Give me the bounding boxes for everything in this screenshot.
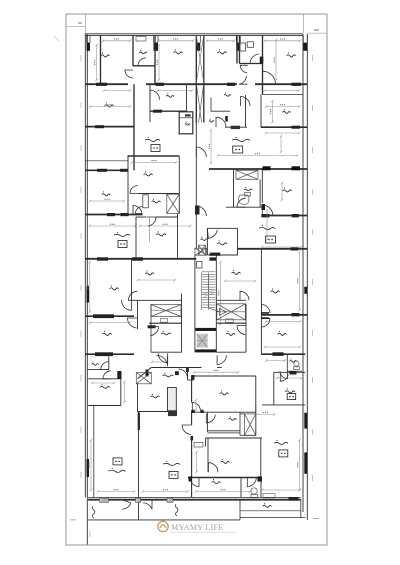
terrace line R2 <box>240 510 301 512</box>
column kitchenR2 <box>290 371 297 375</box>
label bedroomL3b <box>145 270 154 275</box>
label bathRmid <box>244 187 252 191</box>
door bathRmid <box>237 198 246 207</box>
bathL tub <box>143 195 149 208</box>
border frame <box>66 14 327 545</box>
wall x133 <box>132 35 134 66</box>
label bedroom R4 <box>221 459 230 464</box>
column y248 <box>291 247 299 250</box>
bathA sink <box>136 37 146 42</box>
column y258-1 <box>97 257 108 260</box>
bedroomL4 right wall <box>137 300 139 329</box>
door bedroomR2 <box>261 305 270 314</box>
dim y414 R <box>255 413 275 416</box>
bottom long wall <box>88 499 301 501</box>
door shower <box>250 54 260 64</box>
right wall bottom seg <box>306 512 308 520</box>
tick bottom right <box>313 518 319 520</box>
column y315R <box>292 313 300 316</box>
dim v x265 low <box>298 439 301 492</box>
dim v x276 <box>274 39 277 82</box>
blob x262 y204 <box>262 204 266 210</box>
edge tick left 9 <box>80 472 82 478</box>
bedroomR2 bottom wall <box>261 314 307 316</box>
edge tick left 1 <box>80 102 82 108</box>
closet L top wall <box>138 299 182 301</box>
bedroomR3 bottom wall <box>261 353 305 355</box>
bedroomML right wall <box>178 156 180 214</box>
hatch small bath C <box>198 245 205 255</box>
label bedroom A2 <box>174 49 183 54</box>
hall wall x245 <box>245 95 247 127</box>
bathR small bottom <box>287 370 302 372</box>
dim v x158 <box>157 44 160 82</box>
hall wall v211 <box>210 98 212 112</box>
column top-4 <box>236 43 240 51</box>
roomA bottom wall <box>88 405 121 407</box>
top outer wall <box>85 34 302 36</box>
dim y154 R <box>217 154 299 157</box>
tick bottom left <box>70 519 76 521</box>
bathR3 bottom wall <box>207 431 240 433</box>
dim y372 <box>193 370 240 373</box>
edge tick left 3 <box>80 187 82 193</box>
dim bottom recepR <box>195 490 252 493</box>
bathL lower bottom <box>151 351 182 353</box>
column top-2 jambs <box>154 36 159 43</box>
hatch bathL <box>167 194 180 213</box>
bedroomRmid right wall <box>255 376 257 412</box>
column y84-1 <box>96 83 107 86</box>
column y84-3 <box>227 83 235 86</box>
dim y90b <box>157 89 194 92</box>
small shaft box <box>179 112 193 134</box>
label hall small <box>209 119 214 123</box>
wall x262.5 <box>262 35 264 95</box>
door bathL5 <box>101 362 109 370</box>
wall y170L <box>85 169 128 171</box>
block x262 y57 <box>260 57 264 64</box>
watermark <box>158 521 236 532</box>
bedroomRmid top wall <box>192 375 256 377</box>
edge tick right 6 <box>312 330 314 336</box>
dim roomA v <box>123 381 126 404</box>
dim topA1 <box>102 39 132 42</box>
diningR right wall <box>245 304 247 352</box>
door leaf R2b <box>261 317 269 319</box>
column y214-2 <box>121 213 129 216</box>
dim v x196 low <box>195 451 198 474</box>
door bedroomA1 <box>125 70 133 78</box>
door bedroomL3b <box>128 291 137 300</box>
door hall h112 <box>216 117 226 127</box>
dim y90c <box>264 89 301 92</box>
bathRmid right wall <box>259 180 261 208</box>
column top-3 jambs <box>196 36 200 43</box>
roomB left wall <box>137 384 139 412</box>
column right wall lower1 <box>304 413 307 429</box>
column roomA <box>117 371 121 379</box>
label kitchenR2 <box>285 388 295 393</box>
wall y323 R <box>216 322 246 324</box>
wall y323 L <box>149 322 182 324</box>
label bedroomCR <box>232 270 241 275</box>
stair small box <box>197 262 203 269</box>
column central low <box>138 413 140 431</box>
dim bedroomRa v <box>281 182 284 202</box>
dim y453 R <box>261 489 302 492</box>
hatch bathRmid <box>236 170 258 179</box>
dim stair v <box>219 261 222 326</box>
label kitchenR <box>217 240 227 245</box>
dim receptionL mid2 <box>89 224 137 227</box>
bathL5 right wall <box>108 357 110 370</box>
roomB stack <box>168 388 177 412</box>
receptionL left inner wall <box>93 406 95 498</box>
bedroomL4 bottom wall <box>85 353 134 355</box>
edge tick right 3 <box>312 189 314 195</box>
terrace bottom line <box>88 519 240 521</box>
dim y90a <box>103 89 132 92</box>
dim bottom recepL <box>97 490 136 493</box>
terrace label R <box>262 503 271 507</box>
dim bedroomL3 v <box>88 261 91 314</box>
edge tick right 8 <box>312 429 314 435</box>
bathR5 left wall <box>240 478 242 498</box>
door center b <box>196 206 206 216</box>
column y354 <box>95 352 113 356</box>
door hall x245 <box>241 97 251 107</box>
hall wall y127 seg <box>225 126 247 128</box>
central wall lower a <box>191 376 193 403</box>
bathR5 wc <box>251 488 258 498</box>
door leaf R2a <box>261 312 269 314</box>
bedroomR4 right wall <box>260 438 262 478</box>
dim y360 R <box>265 359 287 362</box>
bathL lower right wall <box>181 294 183 353</box>
door bedroomML <box>130 186 138 194</box>
central wall lower b <box>191 436 193 497</box>
duct R bottom wall <box>240 434 256 436</box>
central wall lower a2 <box>191 411 193 426</box>
wall x155 <box>154 35 156 85</box>
column y214-1 <box>107 213 115 216</box>
kitchenL left wall <box>135 217 137 259</box>
numbox receptionL <box>118 241 127 248</box>
bottom long wall2 <box>88 496 301 498</box>
closet L left wall <box>150 305 152 353</box>
dim reception R v <box>266 209 269 242</box>
terrace label L <box>92 506 95 518</box>
tick left-mid <box>54 36 59 41</box>
dim bottom recepC <box>142 490 190 493</box>
hatch bottom-2 <box>136 498 141 502</box>
lobbyR wall h97 <box>263 94 304 96</box>
terrace divider v2 <box>239 500 241 520</box>
hatch closet R lower <box>217 304 246 320</box>
lobby wall h367 <box>151 367 201 369</box>
wall x237 <box>236 35 238 64</box>
wall x261 seg <box>260 95 262 128</box>
dim bedroomR2 v <box>298 251 301 312</box>
column center x196 <box>195 206 200 215</box>
lobby wall h380 <box>188 379 194 381</box>
label bedroomR3 <box>277 331 286 336</box>
edge tick left 5 <box>80 285 82 291</box>
wall x240 <box>239 35 241 64</box>
wc fixture <box>239 193 251 205</box>
shaft inner line <box>179 117 193 119</box>
label bedroomL4 <box>103 331 112 336</box>
column top-5 <box>303 43 307 51</box>
door terrace C <box>143 500 152 510</box>
duct X above stairs <box>195 248 207 255</box>
wall x100 <box>100 35 102 85</box>
wall x138.5 low <box>138 412 140 520</box>
column bottom-4 <box>288 497 298 501</box>
left wall lower seg <box>86 497 88 544</box>
dim v x211 <box>209 129 212 165</box>
entry tick <box>175 371 179 375</box>
column y411-1 <box>192 410 195 413</box>
stair right wall <box>215 255 217 352</box>
diningR bottom <box>216 351 246 353</box>
dim bedroomR1 top <box>265 105 301 108</box>
wall y258L <box>85 258 196 260</box>
stair bottom black bar <box>195 349 216 352</box>
label roomA <box>100 384 110 388</box>
column x226 <box>225 116 228 122</box>
label kitchen L <box>156 231 166 236</box>
stair arrow <box>209 274 227 315</box>
receptionL top wall <box>94 405 121 407</box>
lobby wall v187 <box>187 368 189 381</box>
bedroomML top wall <box>128 155 180 157</box>
roomB dark block <box>168 410 177 416</box>
kitchenR2 left wall <box>273 372 275 405</box>
bedroom2L right wall <box>133 84 135 170</box>
column y84-2 <box>156 83 165 86</box>
bedroomML bottom wall <box>138 193 179 195</box>
column y169-1 <box>263 166 271 170</box>
dim bedroom4L <box>89 199 126 202</box>
terrace right wall <box>300 500 302 518</box>
label bedroom R mid <box>220 390 229 395</box>
bedroomR2 left wall <box>260 249 262 354</box>
label small bedroom R lobby <box>283 109 291 113</box>
dim y418 bedR <box>195 399 198 412</box>
kitchenL top wall <box>136 216 147 218</box>
hall wall h112 <box>211 110 230 112</box>
door center a <box>196 147 206 157</box>
column y111 <box>153 110 162 113</box>
label receptionL <box>114 232 130 237</box>
main wall y84 left <box>85 83 128 85</box>
column top-4 jambs <box>236 36 240 43</box>
stair left wall <box>194 255 196 352</box>
wall v208 seg <box>205 438 207 447</box>
bedroomL3 right wall <box>131 259 133 301</box>
door bedroom R mid <box>192 403 200 411</box>
kitchenL counter <box>148 217 150 242</box>
door bedroom R4 <box>208 463 218 473</box>
label bedroomR2 <box>270 288 279 293</box>
duct R top wall <box>240 413 245 415</box>
tick top-left <box>66 15 85 34</box>
column right wall lower2 <box>304 452 307 473</box>
door kitchenL <box>147 217 156 226</box>
dim v x96 <box>95 44 98 82</box>
column top-5 jambs <box>303 36 307 43</box>
door bedroomRa <box>262 205 273 216</box>
numbox receptionC bottom <box>169 471 178 478</box>
kitchenR2 bottom wall <box>262 404 305 406</box>
door bathL lower <box>158 353 168 363</box>
stair lower hatch <box>197 334 208 348</box>
column right wall streak <box>304 287 307 294</box>
edge tick left 7 <box>80 375 82 381</box>
label entry <box>163 373 174 377</box>
column y127 hall <box>231 126 240 129</box>
duct hatch <box>196 35 204 123</box>
label bedroom A3 <box>218 49 227 54</box>
hatch duct R lower <box>245 414 256 435</box>
shaft dark bar <box>185 114 191 116</box>
utility v x150 <box>149 84 151 111</box>
lobby wall h367 b <box>217 367 222 369</box>
door bedroomCR <box>240 291 249 300</box>
duct R right wall <box>255 405 257 435</box>
edge tick right 1 <box>312 105 314 111</box>
dim L3b <box>137 279 177 282</box>
shower fixtures <box>240 43 246 51</box>
center wall x196 a <box>195 123 197 191</box>
dim bedroom2L <box>89 105 132 108</box>
column y215-2 <box>292 214 299 217</box>
bathR small wc <box>294 361 300 370</box>
column y477 L <box>189 476 193 481</box>
dim bedroomL3 h <box>89 321 132 324</box>
column top-1 jambs <box>87 36 91 43</box>
column y376 <box>191 375 194 380</box>
dim v left low <box>89 439 92 492</box>
label receptionC bottom <box>163 461 180 466</box>
kitchenL top wall b <box>156 216 178 218</box>
hatch bottom-1 <box>100 498 109 502</box>
numbox receptionR top <box>233 146 243 153</box>
roomB bottom wall <box>138 411 177 413</box>
door bedroom R5b <box>247 478 256 487</box>
column y354R <box>273 352 284 356</box>
kitchenR left wall <box>206 228 208 255</box>
door bedroomR2b <box>261 319 270 328</box>
bedroomR4 left wall <box>207 438 209 472</box>
column y169-2 <box>292 166 301 170</box>
diagonal entry wall <box>138 368 152 379</box>
stair treads <box>202 272 216 310</box>
edge tick right 2 <box>312 147 314 153</box>
label utility top C <box>166 93 174 97</box>
door bedroomL3 <box>122 300 132 310</box>
utility v x150b <box>149 111 151 122</box>
label bedroom AR <box>286 52 295 57</box>
label roomB <box>151 394 160 398</box>
label dining R <box>226 331 235 336</box>
edge tick left 8 <box>80 427 82 433</box>
bathR5 right wall <box>260 478 262 498</box>
column y316 <box>93 314 114 318</box>
dim kitchenR2 <box>276 377 304 380</box>
dim receptionR <box>261 246 303 249</box>
edge tick right 4 <box>312 229 314 235</box>
bedroomRa left wall <box>261 169 263 203</box>
room3L bottom thin <box>85 160 127 162</box>
dim roomA top <box>91 382 116 385</box>
door bedroomL4 <box>127 318 137 328</box>
numbox receptionL bottom <box>113 458 122 465</box>
column entry left <box>146 370 149 377</box>
top-right small room wall <box>240 63 263 65</box>
edge tick right 9 <box>312 475 314 481</box>
label receptionL bottom <box>109 468 126 473</box>
dim y133 R <box>265 132 301 135</box>
bedroomR1 bottom wall <box>261 126 307 128</box>
bedroomML left wall <box>127 156 129 215</box>
dimbox 80 <box>161 319 168 323</box>
door diningR <box>237 326 246 335</box>
bedroom4L bottom wall <box>85 214 142 216</box>
column left wall streak2 <box>87 459 90 477</box>
column y170-2 <box>120 169 128 172</box>
door bedroom R5a <box>190 478 199 487</box>
main wall y84 right <box>255 83 307 85</box>
dim v x281 <box>280 135 283 154</box>
label bathR small <box>290 358 297 362</box>
label bedroomL3 <box>110 285 119 290</box>
main wall y84 mid <box>146 83 237 85</box>
kitchenR top wall <box>207 227 237 229</box>
closet R top wall <box>216 299 246 301</box>
column x186 y367 <box>186 367 189 372</box>
dim entry top <box>151 361 166 364</box>
utility v x186 <box>186 84 188 111</box>
edge tick left 2 <box>80 145 82 151</box>
bathRmid bottom wall <box>226 206 261 208</box>
dimbox 1.8 <box>194 443 203 448</box>
column top-1 <box>87 43 91 51</box>
door entry left <box>157 355 168 366</box>
label bathR3 <box>229 416 237 420</box>
utility wall y111 <box>150 110 187 112</box>
hatch closet L lower <box>151 305 181 317</box>
edge tick left 0 <box>80 55 82 61</box>
door bathL <box>136 207 143 214</box>
column y477 R <box>258 476 263 481</box>
dim y347 R <box>264 346 302 349</box>
door entry right <box>217 355 226 364</box>
door receptionC <box>182 425 192 435</box>
edge tick right 7 <box>312 377 314 383</box>
column kitchenR <box>210 253 221 256</box>
door bedroomR1 <box>263 71 276 84</box>
closet R midline <box>217 311 246 313</box>
dim bedroomML <box>131 161 178 164</box>
door terrace L <box>122 500 131 510</box>
kitchenL right wall <box>177 214 179 259</box>
bedroomRa bottom wall <box>261 215 307 217</box>
door bathL top <box>150 327 159 336</box>
block bath L lower <box>148 325 156 328</box>
